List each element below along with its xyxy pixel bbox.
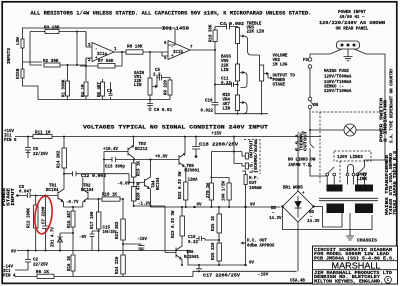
svg-text:-0.7V: -0.7V [66, 201, 79, 205]
svg-text:C8: C8 [19, 186, 24, 190]
svg-text:MJ3001: MJ3001 [185, 170, 200, 174]
svg-text:14.3V: 14.3V [269, 217, 282, 221]
svg-text:-19V: -19V [258, 272, 269, 277]
wire bridge positive up [297, 137, 299, 191]
svg-text:R26 220: R26 220 [212, 242, 216, 260]
svg-text:LIN: LIN [221, 69, 229, 73]
svg-text:POWER: POWER [3, 187, 7, 206]
svg-text:R17 100: R17 100 [91, 211, 95, 229]
svg-text:D.C. OUT: D.C. OUT [247, 240, 267, 244]
wire -19V rail [193, 271, 297, 276]
svg-text:-15V: -15V [137, 238, 147, 242]
svg-text:R22 0.33 3W: R22 0.33 3W [179, 171, 183, 199]
svg-text:R12 100K: R12 100K [28, 208, 32, 228]
SEC:POWERTEXT [319, 11, 386, 32]
svg-text:S.A. TYPE DEPENDANT ON COUNTRY: S.A. TYPE DEPENDANT ON COUNTRY [391, 68, 395, 143]
wire TR5 base line [134, 159, 179, 161]
op-amp IC1a [92, 43, 114, 62]
svg-text:OUT: OUT [249, 182, 257, 186]
svg-text:ON REAR PANEL: ON REAR PANEL [336, 28, 369, 32]
wire bridge AC right [314, 207, 343, 228]
svg-text:LOW: LOW [16, 37, 21, 45]
wire IC1b inputs [162, 28, 175, 56]
wire bass bottom [237, 81, 239, 95]
svg-text:MJ2501: MJ2501 [184, 256, 199, 260]
link 240V loop [348, 165, 354, 174]
svg-text:BD: BD [271, 207, 276, 211]
svg-text:C16: C16 [188, 236, 196, 240]
svg-text:0V: 0V [197, 204, 202, 208]
svg-text:-: - [95, 48, 98, 52]
svg-text:-9V: -9V [79, 236, 87, 240]
SEC:TONE [201, 22, 296, 115]
svg-text:TR6: TR6 [186, 251, 194, 255]
copyright mark [385, 276, 392, 283]
wire bias chain [134, 206, 165, 253]
wire linkage dashed [312, 111, 383, 113]
wire input node [30, 32, 45, 66]
svg-text:100mW: 100mW [249, 187, 262, 191]
svg-text:TR1: TR1 [49, 185, 57, 189]
wire IC1a pin3 [86, 46, 92, 48]
wire bridge AC left [283, 207, 373, 230]
svg-text:0V: 0V [250, 204, 255, 208]
capacitor C16 40/25V [138, 244, 145, 251]
svg-text:0V: 0V [249, 262, 254, 266]
wire secondary earth [349, 213, 351, 236]
svg-text:JAPAN T.X.: JAPAN T.X. [288, 164, 313, 168]
wire IC1b out node up [214, 27, 216, 103]
wire IC1a out [114, 51, 126, 53]
svg-text:1M LOG: 1M LOG [273, 64, 288, 68]
svg-text:R14 2K2: R14 2K2 [58, 150, 62, 168]
svg-text:220V/T100mA: 220V/T100mA [324, 89, 352, 94]
svg-text:IC1: IC1 [3, 270, 11, 274]
svg-text:R19 1K: R19 1K [138, 161, 142, 176]
svg-text:STAGE: STAGE [273, 84, 286, 88]
ground mains earth [344, 49, 353, 61]
svg-text:TR4: TR4 [153, 180, 157, 188]
svg-text:120V LINKS: 120V LINKS [337, 155, 363, 160]
svg-text:+15V: +15V [212, 133, 222, 137]
svg-text:C2: C2 [33, 259, 38, 263]
ground rail tone [215, 113, 268, 115]
linkage dashed vertical [319, 112, 321, 184]
svg-text:VOLUME: VOLUME [273, 55, 288, 59]
svg-text:ALL RESISTORS 1/4W UNLESS STAT: ALL RESISTORS 1/4W UNLESS STATED. ALL CA… [31, 11, 312, 17]
svg-text:VR2: VR2 [273, 59, 281, 63]
svg-text:BC184: BC184 [46, 189, 59, 193]
svg-text:-14V: -14V [3, 266, 13, 270]
svg-text:C13 330p: C13 330p [105, 166, 125, 170]
svg-text:MILTON KEYNES, ENGLAND.: MILTON KEYNES, ENGLAND. [314, 279, 383, 284]
svg-text:R25 1K: R25 1K [212, 216, 216, 231]
links terminals right [358, 167, 365, 174]
svg-text:+0.8V: +0.8V [155, 155, 168, 159]
svg-text:40/60 Hz ∼: 40/60 Hz ∼ [339, 15, 365, 20]
svg-text:0.22: 0.22 [221, 82, 231, 86]
svg-text:STAGE: STAGE [8, 187, 12, 206]
svg-text:22K: 22K [221, 65, 229, 69]
svg-text:PIN 4: PIN 4 [3, 275, 16, 279]
svg-text:C11: C11 [221, 78, 229, 82]
svg-text:C9 0.01: C9 0.01 [154, 108, 172, 113]
svg-text:INPUT: INPUT [12, 187, 16, 206]
svg-text:C6: C6 [33, 148, 38, 152]
svg-text:ON: ON [313, 104, 318, 108]
wire IC1b output [190, 49, 215, 51]
wire jacks to rails [23, 28, 176, 100]
svg-text:120/220/240V AS SHOWN: 120/220/240V AS SHOWN [319, 21, 386, 26]
svg-text:240V: 240V [357, 174, 367, 178]
connector mains input [337, 41, 360, 49]
SEC:TOPNOTE [31, 11, 312, 17]
wire IC1a pin2 feedback [80, 58, 98, 81]
svg-text:22/25V: 22/25V [33, 152, 48, 157]
svg-text:BC212: BC212 [135, 148, 148, 152]
svg-text:VR5: VR5 [221, 60, 229, 64]
SEC:POWERAMP [3, 125, 321, 284]
svg-text:TR3: TR3 [139, 143, 147, 147]
svg-text:14.3V: 14.3V [307, 220, 320, 224]
wire diff emitters [64, 207, 83, 211]
svg-text:22K LIN: 22K LIN [247, 31, 265, 35]
title block frame [313, 246, 398, 284]
svg-text:C18 2200/25V: C18 2200/25V [199, 142, 239, 147]
svg-text:R21 2K2: R21 2K2 [116, 221, 120, 239]
svg-text:0.022: 0.022 [201, 110, 214, 114]
svg-text:LIN: LIN [223, 108, 231, 112]
ground rail preamp [38, 99, 152, 101]
SEC:MAINS [269, 41, 398, 271]
svg-text:BD: BD [309, 211, 314, 215]
label D.C. OUT 0dbm APPROX [242, 242, 246, 244]
svg-text:BASS: BASS [221, 56, 231, 60]
svg-text:C5: C5 [155, 69, 160, 73]
svg-text:(8OHMS/8ohm: (8OHMS/8ohm [254, 139, 259, 173]
svg-text:-: - [171, 46, 174, 50]
svg-text:4K7: 4K7 [223, 103, 231, 107]
wire bridge negative down [297, 222, 299, 271]
svg-text:240V/T160mA: 240V/T160mA [324, 80, 352, 85]
svg-text:TR5: TR5 [187, 165, 195, 169]
svg-text:LINK: LINK [357, 178, 367, 182]
svg-text:CUTOUT: CUTOUT [305, 130, 309, 151]
svg-text:C15: C15 [103, 227, 111, 231]
svg-text:POWER: POWER [273, 79, 286, 83]
svg-text:+18.4V: +18.4V [103, 148, 118, 152]
label OUTPUT TO POWER STAGE [268, 77, 272, 79]
svg-text:HIGH: HIGH [16, 68, 21, 79]
svg-text:BR1 WO05: BR1 WO05 [283, 187, 303, 191]
svg-text:120V/T500mA: 120V/T500mA [324, 75, 352, 80]
SEC:TITLE [313, 246, 398, 284]
svg-text:C: C [387, 278, 390, 283]
svg-text:0dbm APPROX: 0dbm APPROX [247, 244, 275, 249]
svg-text:+15V: +15V [4, 130, 14, 134]
wire dc out [245, 207, 247, 265]
svg-text:75102 JAPAN TSO16 E.S: 75102 JAPAN TSO16 E.S [394, 150, 398, 215]
wire base feed [103, 152, 105, 198]
transformer secondary windings [327, 204, 345, 214]
svg-text:SEMKO :-: SEMKO :- [324, 86, 344, 90]
svg-text:L.S. OUTPUT: L.S. OUTPUT [250, 139, 254, 173]
switch SW1 [308, 97, 312, 101]
svg-text:R8 18K: R8 18K [127, 45, 143, 50]
svg-text:IC1a: IC1a [97, 53, 107, 57]
annotation red ellipse [33, 195, 54, 235]
svg-text:C17 2200/25V: C17 2200/25V [203, 273, 240, 278]
svg-text:VR4: VR4 [223, 99, 231, 103]
svg-text:BC184: BC184 [157, 177, 161, 190]
svg-text:12mA: 12mA [188, 178, 198, 182]
chassis earth [346, 236, 354, 240]
svg-text:MID: MID [223, 94, 231, 98]
svg-text:INPUTS: INPUTS [8, 47, 12, 64]
svg-text:MARSHALL: MARSHALL [332, 260, 381, 270]
svg-text:MAINS FUSE: MAINS FUSE [324, 70, 349, 74]
svg-text:-0.6V: -0.6V [118, 182, 131, 186]
SEC:PREAMP [8, 26, 215, 114]
svg-text:IC1b: IC1b [173, 50, 183, 55]
transformer core [319, 198, 378, 200]
transformer T1 primary windings [327, 185, 343, 192]
wire output node [151, 206, 281, 207]
links terminals 120V [327, 167, 334, 174]
svg-text:C5A.4B: C5A.4B [290, 280, 305, 284]
svg-text:H.P.: H.P. [249, 177, 259, 181]
wire live [310, 49, 342, 57]
svg-text:22/25V: 22/25V [33, 263, 48, 268]
svg-text:C12 0.002: C12 0.002 [81, 175, 107, 179]
svg-text:R20 470: R20 470 [138, 182, 142, 200]
svg-text:IC1 1458: IC1 1458 [162, 27, 190, 32]
wire primary feeds [310, 130, 385, 185]
svg-text:100 1/2W: 100 1/2W [222, 181, 227, 201]
wire neutral [354, 49, 385, 110]
wire treble wiper hook [238, 36, 260, 64]
svg-text:NO LINKS ON: NO LINKS ON [288, 159, 316, 163]
svg-text:0V: 0V [11, 251, 16, 255]
svg-text:R23 0.33 3W: R23 0.33 3W [172, 210, 176, 238]
svg-text:VOLTAGES TYPICAL NO SIGNAL CON: VOLTAGES TYPICAL NO SIGNAL CONDITION 240… [83, 125, 268, 131]
lamp indicator [310, 112, 385, 130]
svg-text:CHASSIS: CHASSIS [357, 239, 377, 244]
svg-text:PIN 8: PIN 8 [4, 139, 17, 143]
svg-text:OUTPUT TO: OUTPUT TO [273, 75, 296, 79]
svg-text:ZD1 4.7V: ZD1 4.7V [52, 227, 56, 247]
svg-text:0.22: 0.22 [188, 241, 198, 245]
svg-text:TR2: TR2 [83, 185, 91, 189]
svg-text:IC1: IC1 [4, 135, 12, 139]
svg-text:100/25V: 100/25V [103, 230, 117, 235]
svg-text:R24 220: R24 220 [116, 256, 120, 274]
svg-text:LIN: LIN [134, 84, 142, 88]
svg-text:POWER INPUT: POWER INPUT [338, 11, 366, 15]
